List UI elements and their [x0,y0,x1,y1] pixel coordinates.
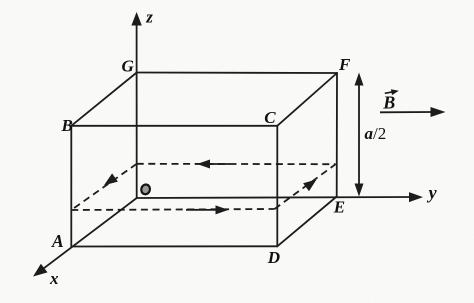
y axis [137,192,423,202]
box edge A-D (bottom front) [71,245,277,247]
box edge F-E [336,73,338,197]
dashed loop edge right (P3-P2) [275,164,336,209]
dimension line a/2 [355,73,364,197]
current arrow on front edge (points right) [186,205,229,214]
box edge C-F [277,73,337,126]
box edge B-A [70,126,72,247]
svg-text:B: B [382,93,395,113]
box edge B-C (top front) [71,125,277,127]
box edge C-D [276,126,278,247]
svg-text:F: F [338,55,351,74]
x axis [33,198,137,277]
svg-text:G: G [122,57,135,76]
svg-text:A: A [51,231,64,251]
svg-text:a/2: a/2 [365,124,387,143]
box edge D-E [277,197,336,247]
svg-text:y: y [427,183,438,203]
svg-text:x: x [49,269,59,288]
box edge B-G [71,73,136,126]
svg-text:B: B [61,116,73,135]
dashed loop edge left (P1-P4) [71,164,136,210]
vector B field arrow [380,107,446,117]
current arrow on left edge (points down-left) [104,173,118,185]
origin O glyph [140,184,151,196]
box edge G-F (top back) [137,72,337,75]
label B vector with overhead arrow [382,89,399,112]
dashed loop edge front (P4-P3) [71,209,274,210]
svg-text:z: z [145,7,153,26]
current arrow on back edge (points left) [197,160,230,169]
current arrow on right edge (points up-right) [303,180,316,192]
z axis [131,12,141,198]
svg-text:D: D [267,248,280,267]
svg-text:E: E [333,198,345,217]
dashed loop edge back (P1-P2) [137,163,336,165]
svg-text:C: C [264,108,276,127]
